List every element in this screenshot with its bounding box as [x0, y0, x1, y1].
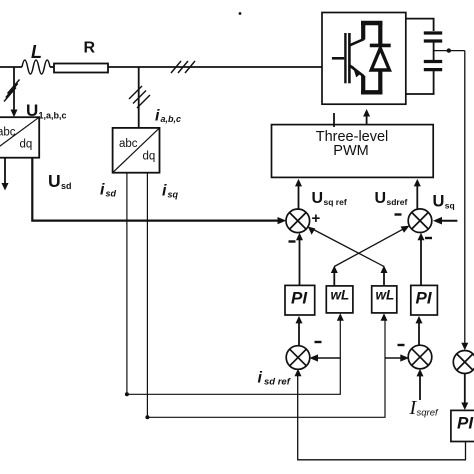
- svg-text:sq: sq: [168, 189, 179, 199]
- svg-text:sqref: sqref: [417, 408, 439, 419]
- wire: caps bottom to converter: [406, 71, 434, 94]
- svg-text:i: i: [100, 182, 105, 199]
- three-phase slash marks on current tap: [129, 86, 150, 108]
- wL1 block: [326, 286, 353, 313]
- arrow: voltage transform unused output: [4, 158, 6, 184]
- svg-text:sd: sd: [106, 188, 117, 198]
- wire: PWM top stub: [333, 113, 335, 127]
- svg-text:sdref: sdref: [387, 197, 408, 207]
- top bar: [361, 21, 382, 25]
- wire: PWM to converter: [366, 115, 368, 125]
- PI1 block: [285, 285, 315, 315]
- summing junction 1 (Usq ref): [286, 209, 310, 233]
- label isd: [100, 182, 117, 199]
- svg-text:+: +: [312, 210, 321, 227]
- svg-text:U: U: [48, 171, 61, 191]
- svg-text:PWM: PWM: [333, 143, 368, 159]
- wire: wL2 output stub: [383, 271, 385, 286]
- svg-text:i: i: [258, 370, 263, 387]
- label isd ref: [258, 370, 291, 388]
- gate bar: [344, 33, 346, 83]
- wire: DC feedback down right edge: [464, 51, 466, 344]
- wire: sum2 to PWM: [416, 186, 418, 209]
- svg-text:dq: dq: [143, 151, 156, 163]
- wire: PI3 output to isd ref: [298, 376, 466, 460]
- wire: Isqref input: [419, 376, 421, 400]
- wire: sum1 to PWM: [298, 186, 300, 209]
- wire: sum5 to PI3: [464, 374, 466, 405]
- cross-coupling diagonal wL1 to sum2: [334, 228, 405, 267]
- svg-text:i: i: [162, 183, 167, 200]
- svg-text:PI: PI: [416, 289, 433, 308]
- wire: PI1 to sum1: [299, 240, 301, 285]
- stray mark: [239, 12, 242, 15]
- svg-text:abc: abc: [0, 127, 16, 139]
- summing junction 5 (DC voltage): [453, 351, 474, 374]
- svg-text:a,b,c: a,b,c: [161, 114, 182, 124]
- summing junction 2 (Usd ref): [408, 209, 432, 233]
- sign minus lower-right of sum2: [425, 237, 432, 239]
- capacitor C1: [424, 33, 442, 41]
- PI3 block: [451, 410, 474, 441]
- wire: isq spur into sum4: [385, 357, 402, 359]
- body bar: [348, 33, 351, 83]
- svg-text:sq ref: sq ref: [324, 197, 347, 207]
- wire: isq measurement routing: [147, 173, 385, 418]
- wire: inductor to resistor: [50, 66, 54, 68]
- arrowhead into U transform: [11, 110, 18, 118]
- transform block i abc/dq: [113, 128, 160, 173]
- junction dot isq corner: [145, 415, 149, 419]
- left rail bottom: [361, 76, 365, 95]
- summing junction 3 (isd error): [286, 346, 310, 370]
- label Usd: [48, 171, 72, 191]
- svg-text:U: U: [26, 101, 38, 120]
- IGBT with diode inside converter: [332, 21, 391, 94]
- sign minus upper-left of sum2: [395, 213, 402, 215]
- wire: tap to current transform: [138, 67, 140, 128]
- wire: DC midpoint tap: [434, 50, 465, 52]
- label U1,a,b,c: [26, 101, 67, 121]
- wL2 block: [372, 286, 397, 313]
- junction dot isd corner: [125, 392, 129, 396]
- left rail top: [361, 21, 365, 40]
- wire: isd measurement routing: [127, 173, 340, 395]
- capacitor C2: [424, 62, 442, 70]
- wire: AC input line: [0, 66, 22, 68]
- summing junction 4 (isq error): [408, 345, 432, 369]
- svg-text:U: U: [433, 193, 445, 211]
- svg-text:PI: PI: [291, 289, 308, 308]
- wire: isd spur into sum3: [317, 357, 340, 359]
- diode cathode bar: [370, 44, 391, 48]
- wire: converter to DC caps top: [406, 19, 434, 31]
- label isq: [162, 183, 179, 200]
- emitter diagonal: [349, 65, 363, 76]
- emitter arrowhead: [353, 66, 361, 78]
- svg-text:abc: abc: [119, 138, 138, 150]
- wire: Usq input: [441, 220, 457, 222]
- svg-text:R: R: [84, 40, 96, 57]
- svg-text:dq: dq: [20, 139, 33, 151]
- wire: tap to voltage transform: [13, 67, 15, 112]
- wire: Usd to summing junction 1: [32, 158, 278, 221]
- transform block U abc/dq: [0, 117, 39, 158]
- right rail bottom: [378, 70, 382, 94]
- svg-text:wL: wL: [376, 288, 395, 303]
- arrowhead into wL1: [337, 313, 344, 321]
- gate lead: [332, 57, 344, 60]
- inductor L: [22, 60, 50, 74]
- svg-text:PI: PI: [457, 414, 474, 433]
- svg-text:wL: wL: [331, 288, 350, 303]
- diode triangle: [371, 48, 389, 70]
- label Isqref: [409, 397, 439, 419]
- svg-text:1,a,b,c: 1,a,b,c: [39, 111, 67, 121]
- three-phase slash marks on voltage tap: [4, 80, 20, 102]
- wire: wL1 output stub: [333, 271, 335, 286]
- three-phase slash marks on AC line: [171, 61, 195, 73]
- label Usdref: [375, 190, 408, 207]
- PI2 block: [411, 285, 438, 315]
- resistor R: [54, 64, 108, 73]
- svg-text:i: i: [155, 108, 160, 125]
- svg-text:sq: sq: [445, 200, 455, 210]
- bottom bar: [361, 90, 382, 94]
- svg-text:U: U: [375, 190, 387, 207]
- svg-text:sd ref: sd ref: [264, 377, 291, 388]
- svg-text:L: L: [31, 42, 42, 62]
- wire: sum3 to PI1: [298, 323, 300, 347]
- junction dot on tap: [447, 48, 451, 52]
- wire: resistor to converter: [108, 66, 322, 68]
- wire: sum4 to PI2: [418, 323, 420, 346]
- arrowhead into wL2: [381, 313, 388, 321]
- sign minus above right of sum3: [315, 341, 322, 343]
- label Usq ref: [312, 190, 347, 207]
- right rail top: [378, 21, 382, 45]
- cross-coupling diagonal wL2 to sum1: [312, 229, 385, 267]
- svg-text:U: U: [312, 190, 324, 207]
- sign minus above left of sum4: [398, 344, 405, 346]
- collector diagonal: [349, 39, 363, 45]
- svg-text:sd: sd: [61, 181, 72, 191]
- label Usq: [433, 193, 455, 211]
- wire: between capacitors: [433, 43, 435, 61]
- converter block: [322, 13, 406, 105]
- sign minus below sum1: [289, 240, 296, 242]
- label Three-level PWM: [316, 129, 389, 159]
- wire: PI2 to sum2: [420, 240, 422, 285]
- label i a,b,c: [155, 108, 181, 125]
- PWM block: [272, 125, 434, 178]
